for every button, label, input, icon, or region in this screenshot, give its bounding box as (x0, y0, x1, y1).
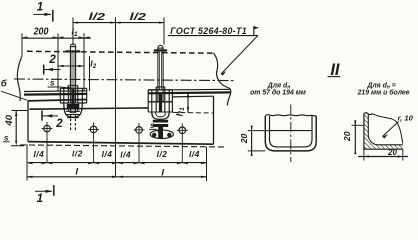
svg-text:2: 2 (48, 54, 56, 66)
svg-text:l: l (161, 168, 164, 179)
svg-text:s: s (4, 133, 9, 142)
svg-text:40: 40 (4, 114, 15, 126)
svg-text:l/4: l/4 (120, 150, 131, 160)
svg-text:1: 1 (37, 193, 43, 205)
svg-text:б: б (1, 78, 8, 89)
svg-text:ГОСТ 5264-80-Т1: ГОСТ 5264-80-Т1 (170, 26, 247, 36)
svg-text:l/2: l/2 (72, 149, 83, 159)
svg-text:l/2: l/2 (89, 11, 106, 23)
svg-text:l2: l2 (90, 59, 96, 71)
svg-text:s: s (150, 121, 155, 130)
svg-text:от 57 до 194 мм: от 57 до 194 мм (250, 89, 306, 97)
svg-text:l/4: l/4 (102, 149, 113, 159)
svg-text:r, 10: r, 10 (398, 114, 414, 123)
svg-text:l/4: l/4 (33, 149, 44, 159)
svg-text:l/4: l/4 (189, 149, 200, 159)
svg-text:l/2: l/2 (130, 11, 147, 23)
svg-text:200: 200 (33, 26, 49, 38)
svg-text:l/2: l/2 (157, 149, 168, 159)
svg-text:1: 1 (37, 2, 43, 14)
svg-text:219 мм и более: 219 мм и более (357, 89, 410, 97)
svg-text:h1: h1 (174, 107, 186, 117)
svg-text:20: 20 (342, 131, 352, 142)
svg-text:2: 2 (55, 118, 63, 130)
svg-text:20: 20 (239, 134, 249, 145)
svg-text:l: l (75, 167, 78, 178)
svg-text:20: 20 (387, 148, 397, 157)
svg-text:l1: l1 (71, 27, 78, 39)
svg-text:s: s (50, 79, 55, 88)
